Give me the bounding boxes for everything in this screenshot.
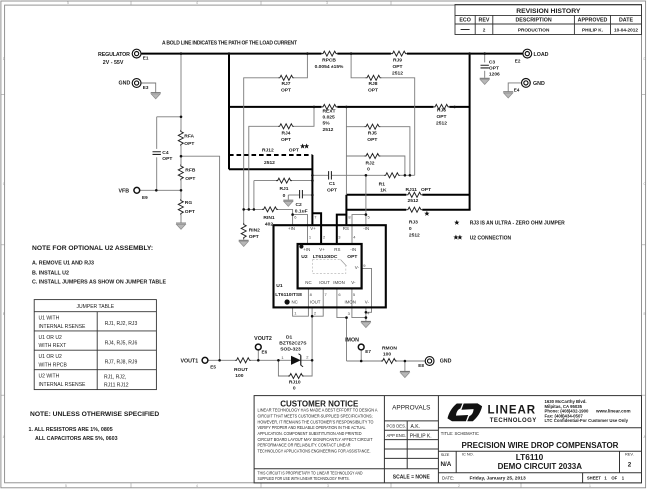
svg-text:OPT: OPT — [489, 65, 499, 71]
svg-text:5: 5 — [65, 484, 67, 488]
svg-text:RJ5: RJ5 — [368, 131, 377, 137]
svg-text:RMON: RMON — [382, 346, 397, 352]
svg-text:HOWEVER, IT REMAINS THE CUSTOM: HOWEVER, IT REMAINS THE CUSTOMER’S RESPO… — [258, 419, 375, 424]
svg-text:+IN: +IN — [303, 247, 310, 252]
svg-text:LTC Confidential-For Customer: LTC Confidential-For Customer Use Only — [545, 418, 629, 423]
svg-text:PHILIP K.: PHILIP K. — [582, 27, 603, 32]
svg-text:Friday, January 25, 2013: Friday, January 25, 2013 — [470, 476, 526, 482]
svg-text:RIN1: RIN1 — [263, 215, 274, 221]
svg-text:REV: REV — [479, 18, 490, 24]
svg-text:V-: V- — [351, 280, 356, 285]
svg-text:CIRCUIT THAT MEETS CUSTOMER-SU: CIRCUIT THAT MEETS CUSTOMER-SUPPLIED SPE… — [258, 414, 373, 419]
svg-text:RJ4, RJ5, RJ6: RJ4, RJ5, RJ6 — [105, 340, 138, 346]
svg-text:VOUT2: VOUT2 — [254, 336, 272, 342]
svg-text:RS: RS — [334, 247, 340, 252]
svg-text:NOTE: UNLESS OTHERWISE SPECIFI: NOTE: UNLESS OTHERWISE SPECIFIED — [30, 411, 159, 418]
svg-text:U1 OR U2: U1 OR U2 — [39, 354, 62, 360]
svg-text:OPT: OPT — [368, 87, 378, 93]
svg-text:E3: E3 — [143, 85, 149, 90]
svg-text:0.0054 ±15%: 0.0054 ±15% — [315, 64, 344, 70]
svg-text:U1 WITH: U1 WITH — [39, 316, 60, 322]
svg-text:2: 2 — [483, 27, 486, 32]
svg-text:INTERNAL RSENSE: INTERNAL RSENSE — [39, 382, 87, 388]
svg-text:OPT: OPT — [367, 137, 377, 143]
svg-text:4: 4 — [196, 484, 198, 488]
svg-text:A. REMOVE U1 AND RJ3: A. REMOVE U1 AND RJ3 — [32, 260, 94, 266]
svg-text:U2: U2 — [301, 254, 308, 260]
svg-text:RJ7, RJ8, RJ9: RJ7, RJ8, RJ9 — [105, 360, 138, 366]
svg-text:NC: NC — [305, 280, 311, 285]
svg-text:PRODUCTION: PRODUCTION — [518, 27, 550, 32]
svg-text:SCALE = NONE: SCALE = NONE — [393, 474, 431, 480]
svg-text:E1: E1 — [143, 55, 149, 60]
svg-text:C2: C2 — [296, 202, 303, 208]
svg-text:OPT: OPT — [162, 156, 172, 162]
svg-text:E2: E2 — [515, 59, 521, 64]
svg-text:OPT: OPT — [289, 147, 299, 153]
svg-text:VFB: VFB — [119, 188, 130, 194]
svg-text:APPROVALS: APPROVALS — [392, 404, 430, 411]
svg-text:C. INSTALL JUMPERS AS SHOW ON: C. INSTALL JUMPERS AS SHOW ON JUMPER TAB… — [32, 279, 166, 285]
svg-text:IOUT: IOUT — [310, 300, 321, 305]
svg-text:OPT: OPT — [392, 64, 402, 70]
svg-text:WITH REXT: WITH REXT — [39, 343, 67, 349]
svg-text:V+: V+ — [319, 247, 325, 252]
svg-text:IMON: IMON — [345, 337, 359, 343]
svg-text:U2 CONNECTION: U2 CONNECTION — [470, 235, 512, 241]
svg-text:REV.: REV. — [625, 452, 634, 457]
svg-text:VOUT1: VOUT1 — [181, 359, 199, 365]
svg-text:LT6110IDC: LT6110IDC — [313, 254, 338, 260]
svg-text:NOTE FOR OPTIONAL U2 ASSEMBLY: NOTE FOR OPTIONAL U2 ASSEMBLY: — [32, 245, 153, 252]
svg-text:RJ3: RJ3 — [409, 219, 418, 225]
svg-text:RG: RG — [185, 200, 193, 206]
svg-text:IC NO.: IC NO. — [462, 452, 474, 457]
svg-text:DATE:: DATE: — [442, 475, 454, 480]
svg-text:WITH RPCB: WITH RPCB — [39, 363, 68, 369]
svg-text:RJ11: RJ11 — [406, 187, 418, 193]
svg-text:E4: E4 — [514, 88, 520, 93]
svg-text:NC: NC — [292, 300, 298, 305]
svg-text:RJ6: RJ6 — [437, 108, 446, 114]
svg-text:3: 3 — [327, 484, 329, 488]
svg-text:THIS CIRCUIT IS PROPRIETARY TO: THIS CIRCUIT IS PROPRIETARY TO LINEAR TE… — [258, 470, 363, 475]
svg-text:0: 0 — [367, 166, 370, 172]
svg-text:B. INSTALL U2: B. INSTALL U2 — [32, 271, 69, 277]
svg-text:OPT: OPT — [347, 254, 357, 260]
svg-text:RJ1, RJ2,: RJ1, RJ2, — [104, 374, 126, 380]
svg-text:OPT: OPT — [421, 187, 431, 193]
svg-text:IMON: IMON — [345, 300, 356, 305]
svg-text:RJ8: RJ8 — [369, 81, 378, 87]
svg-text:VERIFY PROPER AND RELIABLE OPE: VERIFY PROPER AND RELIABLE OPERATION IN … — [258, 425, 366, 430]
svg-text:IMON: IMON — [333, 280, 344, 285]
svg-text:OPT: OPT — [281, 87, 291, 93]
svg-text:www.linear.com: www.linear.com — [595, 409, 631, 414]
svg-text:OPT: OPT — [436, 114, 446, 120]
svg-text:ECO: ECO — [459, 18, 470, 24]
svg-text:APP ENG.: APP ENG. — [387, 433, 407, 438]
svg-text:2512: 2512 — [264, 160, 275, 166]
svg-text:REGULATOR: REGULATOR — [98, 52, 130, 58]
svg-text:0: 0 — [293, 386, 296, 392]
svg-text:OPT: OPT — [281, 137, 291, 143]
svg-text:1K: 1K — [380, 187, 387, 193]
svg-text:LT6110ITS8: LT6110ITS8 — [275, 292, 302, 298]
svg-text:1. ALL RESISTORS ARE 1%, 0805: 1. ALL RESISTORS ARE 1%, 0805 — [29, 427, 113, 433]
svg-text:GND: GND — [119, 81, 131, 87]
svg-text:RJ10: RJ10 — [289, 380, 301, 386]
svg-text:A BOLD LINE INDICATES THE PATH: A BOLD LINE INDICATES THE PATH OF THE LO… — [162, 41, 297, 47]
svg-text:SUPPLIED FOR USE WITH LINEAR T: SUPPLIED FOR USE WITH LINEAR TECHNOLOGY … — [258, 476, 350, 481]
svg-text:RFB: RFB — [185, 167, 196, 173]
svg-text:PERFORMANCE OR RELIABILITY.: PERFORMANCE OR RELIABILITY. CONTACT LINE… — [258, 443, 351, 448]
svg-text:RJ3 IS AN ULTRA - ZERO OHM JUM: RJ3 IS AN ULTRA - ZERO OHM JUMPER — [470, 221, 565, 227]
svg-text:5: 5 — [67, 1, 69, 5]
svg-text:RJ1: RJ1 — [280, 186, 289, 192]
svg-text:INTERNAL RSENSE: INTERNAL RSENSE — [39, 324, 87, 330]
svg-text:RJ12: RJ12 — [262, 147, 274, 153]
svg-text:2512: 2512 — [409, 232, 420, 238]
svg-text:RJ9: RJ9 — [393, 57, 402, 63]
svg-text:2512: 2512 — [436, 121, 447, 127]
svg-text:PCB DES.: PCB DES. — [387, 423, 407, 428]
svg-text:OPT: OPT — [184, 141, 194, 147]
svg-text:5%: 5% — [323, 121, 331, 127]
svg-text:CIRCUIT BOARD LAYOUT MAY SIGNI: CIRCUIT BOARD LAYOUT MAY SIGNIFICANTLY A… — [258, 437, 373, 442]
svg-text:E5: E5 — [210, 365, 216, 370]
svg-text:RPCB: RPCB — [322, 57, 336, 63]
svg-text:SHEET 1 OF 1: SHEET 1 OF 1 — [587, 476, 625, 481]
svg-text:PRECISION WIRE DROP COMPENSATO: PRECISION WIRE DROP COMPENSATOR — [462, 441, 619, 450]
svg-text:2512: 2512 — [392, 70, 403, 76]
svg-text:REXT: REXT — [323, 109, 336, 115]
svg-text:OPT: OPT — [327, 188, 337, 194]
svg-text:GND: GND — [533, 81, 545, 87]
svg-text:LT6110: LT6110 — [516, 452, 544, 462]
svg-text:E6: E6 — [262, 350, 268, 355]
svg-text:R1: R1 — [379, 181, 386, 187]
svg-text:RJ11 RJ12: RJ11 RJ12 — [104, 383, 129, 389]
svg-text:2: 2 — [458, 484, 460, 488]
svg-text:APPLICATION. COMPONENT SUBSTI: APPLICATION. COMPONENT SUBSTITUTION AND … — [258, 431, 362, 436]
svg-text:OPT: OPT — [185, 209, 195, 215]
svg-text:TITLE: SCHEMATIC: TITLE: SCHEMATIC — [441, 431, 479, 436]
svg-text:V-: V- — [365, 300, 370, 305]
svg-text:RJ4: RJ4 — [282, 131, 291, 137]
svg-text:C1: C1 — [329, 181, 336, 187]
svg-text:402: 402 — [265, 221, 273, 227]
svg-text:U2 WITH: U2 WITH — [39, 374, 60, 380]
svg-text:RJ2: RJ2 — [366, 160, 375, 166]
svg-text:RS: RS — [343, 226, 349, 231]
svg-text:2512: 2512 — [408, 198, 419, 204]
svg-text:0.025: 0.025 — [323, 115, 336, 121]
svg-text:2: 2 — [628, 462, 632, 469]
svg-text:IOUT: IOUT — [319, 280, 330, 285]
svg-text:100: 100 — [383, 352, 391, 358]
svg-text:RIN2: RIN2 — [249, 227, 260, 233]
svg-text:OPT: OPT — [249, 234, 259, 240]
svg-text:100: 100 — [235, 373, 243, 379]
svg-text:LINEAR: LINEAR — [488, 404, 536, 416]
svg-text:ROUT: ROUT — [234, 367, 248, 373]
svg-text:U1 OR U2: U1 OR U2 — [39, 335, 62, 341]
svg-text:+IN: +IN — [288, 226, 295, 231]
svg-text:DEMO CIRCUIT 2033A: DEMO CIRCUIT 2033A — [498, 462, 583, 471]
svg-text:2512: 2512 — [323, 127, 334, 133]
svg-text:TECHNOLOGY: TECHNOLOGY — [490, 418, 537, 424]
svg-text:4: 4 — [196, 1, 198, 5]
svg-text:APPROVED: APPROVED — [578, 18, 608, 24]
svg-text:RJ1, RJ2, RJ3: RJ1, RJ2, RJ3 — [105, 321, 138, 327]
svg-text:1: 1 — [589, 484, 591, 488]
svg-text:-IN: -IN — [363, 226, 369, 231]
svg-text:E7: E7 — [365, 349, 371, 354]
svg-text:D1: D1 — [286, 334, 293, 340]
svg-text:1206: 1206 — [489, 71, 500, 77]
svg-text:LINEAR TECHNOLOGY HAS MADE A B: LINEAR TECHNOLOGY HAS MADE A BEST EFFORT… — [258, 408, 378, 413]
svg-text:RFA: RFA — [184, 134, 194, 140]
svg-text:V+: V+ — [310, 226, 316, 231]
svg-text:DATE: DATE — [619, 18, 633, 24]
svg-text:LOAD: LOAD — [534, 52, 549, 58]
svg-text:V-: V- — [355, 265, 360, 270]
svg-text:C3: C3 — [489, 60, 496, 66]
svg-text:-IN: -IN — [350, 247, 356, 252]
svg-text:10-04-2012: 10-04-2012 — [614, 27, 638, 32]
svg-text:SIZE: SIZE — [441, 452, 450, 457]
svg-text:E9: E9 — [142, 195, 148, 200]
svg-text:RJ7: RJ7 — [282, 81, 291, 87]
svg-text:3: 3 — [326, 1, 328, 5]
svg-text:A.K.: A.K. — [411, 424, 420, 430]
svg-text:0: 0 — [409, 226, 412, 232]
svg-text:TECHNOLOGY APPLICATIONS ENGINE: TECHNOLOGY APPLICATIONS ENGINEERING FOR … — [258, 449, 371, 454]
svg-text:E8: E8 — [418, 363, 424, 368]
svg-text:PHILIP K.: PHILIP K. — [410, 434, 432, 440]
svg-text:C4: C4 — [162, 150, 169, 156]
svg-text:JUMPER TABLE: JUMPER TABLE — [76, 304, 114, 310]
svg-text:N/A: N/A — [441, 461, 452, 468]
svg-text:OPT: OPT — [185, 176, 195, 182]
svg-text:ALL CAPACITORS ARE 5%, 0603: ALL CAPACITORS ARE 5%, 0603 — [35, 436, 118, 442]
svg-text:GND: GND — [440, 358, 452, 364]
svg-text:DESCRIPTION: DESCRIPTION — [515, 18, 551, 24]
svg-text:REVISION HISTORY: REVISION HISTORY — [516, 8, 581, 15]
svg-text:0.1uF: 0.1uF — [295, 209, 308, 215]
svg-text:U1: U1 — [276, 283, 283, 289]
svg-text:2V - 55V: 2V - 55V — [103, 60, 124, 66]
svg-text:0: 0 — [283, 193, 286, 199]
svg-text:SOD-323: SOD-323 — [280, 347, 301, 353]
svg-text:BZT52C27S: BZT52C27S — [279, 341, 307, 347]
